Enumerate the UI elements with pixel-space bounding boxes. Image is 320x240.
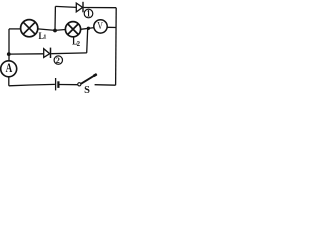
battery cell xyxy=(56,78,59,90)
wire drop from node B down to branch 2 xyxy=(87,28,88,53)
junction node B dot xyxy=(87,27,90,30)
wire bottom row: battery to switch xyxy=(59,84,78,86)
circled label 2 xyxy=(54,56,62,65)
wire main row: lamp L2 to voltmeter xyxy=(81,28,95,30)
switch S lever tip xyxy=(94,74,97,76)
svg-text:1: 1 xyxy=(43,34,46,41)
svg-text:1: 1 xyxy=(87,8,91,19)
wire top row: corner to diode 1 xyxy=(55,6,76,7)
switch S pivot xyxy=(78,83,81,86)
junction dot left xyxy=(7,52,11,56)
wire main row: voltmeter to right edge xyxy=(107,26,116,28)
wire right vertical xyxy=(115,8,118,86)
diode D2 (middle branch) xyxy=(44,48,51,58)
svg-text:2: 2 xyxy=(56,56,60,65)
lamp L2 xyxy=(65,22,80,37)
ammeter A xyxy=(1,61,17,77)
wire top row: diode 1 to right corner xyxy=(84,7,117,9)
junction node A dot xyxy=(53,29,57,33)
wire top branch vertical xyxy=(54,6,56,30)
switch S lever xyxy=(81,74,97,84)
wire bottom row: switch to right corner xyxy=(95,84,116,87)
wire main row left: left corner to lamp L1 xyxy=(9,28,21,30)
lamp L1 xyxy=(21,20,38,37)
wire bottom row: left to battery xyxy=(9,84,55,85)
svg-text:V: V xyxy=(97,21,103,32)
voltmeter V xyxy=(94,20,107,33)
diode D1 (top branch) xyxy=(76,2,83,13)
svg-text:2: 2 xyxy=(77,41,81,48)
circled label 1 xyxy=(84,8,93,19)
svg-text:S: S xyxy=(84,85,90,94)
wire main row: lamp L1 to node A xyxy=(38,29,66,31)
wire left vertical lower xyxy=(8,77,10,86)
wire branch 2 row: diode 2 to right xyxy=(51,52,87,55)
wire left vertical upper xyxy=(8,29,10,61)
svg-text:A: A xyxy=(6,62,13,76)
wire branch 2 row: left node to diode 2 xyxy=(9,53,44,55)
